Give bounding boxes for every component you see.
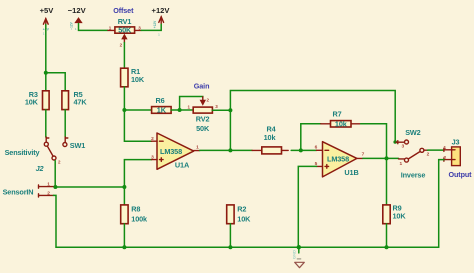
potentiometer RV1 body <box>115 27 135 33</box>
switch SW2 throw contact 1 <box>405 158 409 162</box>
ground symbol <box>292 247 305 268</box>
switch SW1 common contact 2 <box>52 156 56 160</box>
svg-text:R7: R7 <box>332 109 341 118</box>
switch SW2 throw contact 3 <box>405 140 409 144</box>
svg-text:RV2: RV2 <box>196 115 210 124</box>
svg-text:1K: 1K <box>157 106 167 115</box>
wire RV2 pin3 to vertical column <box>212 109 230 111</box>
node wire-end dot SW2 pin3 <box>393 140 397 144</box>
svg-text:GND: GND <box>292 250 297 259</box>
svg-text:J2: J2 <box>36 164 44 173</box>
resistor R8 body <box>121 205 128 224</box>
wire RV1 pin3 to +12V corner <box>141 24 161 30</box>
svg-text:2: 2 <box>151 136 154 142</box>
svg-text:LM358: LM358 <box>327 154 349 163</box>
node junction R1/R6 <box>122 108 126 112</box>
U1B output pin7 stub <box>357 157 363 159</box>
svg-text:50K: 50K <box>118 26 132 35</box>
svg-text:U1A: U1A <box>175 160 190 169</box>
wire junction to R6 <box>124 109 151 111</box>
resistor R6 body <box>152 107 172 114</box>
J2 pin 2 <box>39 194 54 197</box>
svg-text:Gain: Gain <box>194 82 210 91</box>
node junction U1A pin3 / R8 <box>122 185 126 189</box>
svg-text:Offset: Offset <box>113 6 134 15</box>
wire R3 bottom to SW1 <box>45 110 47 137</box>
SW2 lever <box>408 152 420 159</box>
op-amp U1A <box>157 133 194 169</box>
switch SW1 throw contact 3 <box>63 143 67 147</box>
wire R2 bottom to rail <box>229 224 231 248</box>
svg-text:Sensitivity: Sensitivity <box>5 148 41 157</box>
resistor R5 body <box>62 91 69 110</box>
wire ground rail <box>56 246 439 248</box>
wire RV1 wiper down to R1 <box>123 43 125 69</box>
svg-text:RV1: RV1 <box>118 17 132 26</box>
wire column down to R4 line <box>229 110 231 150</box>
svg-text:+5V: +5V <box>40 6 55 15</box>
wire SW1 common down to J2 junction <box>54 161 56 187</box>
R4 pin stubs <box>252 149 288 151</box>
wire U1A output to R4 <box>200 149 252 151</box>
wire J2 pin2 down to ground rail <box>53 195 56 247</box>
wire U1B pin5 left and down to rail <box>298 166 316 247</box>
node junction R9/rail <box>385 245 389 249</box>
svg-text:3: 3 <box>151 154 154 160</box>
svg-text:3: 3 <box>402 143 405 149</box>
svg-text:SW2: SW2 <box>405 128 420 137</box>
svg-text:2: 2 <box>47 190 50 196</box>
U1B pin6 stub <box>317 149 323 151</box>
wire SW2 common to J3 pin1 <box>428 149 444 151</box>
svg-text:50K: 50K <box>196 124 210 133</box>
J2 pin 1 <box>39 185 54 188</box>
wire junction down to R8 <box>123 187 125 205</box>
wire junction to R3 top <box>45 73 47 91</box>
resistor R2 body <box>227 205 234 224</box>
resistor R9 body <box>383 205 390 224</box>
node junction J2 pin1 <box>53 185 57 189</box>
node junction R7 feedback left <box>299 148 303 152</box>
SW2 pin3 stub <box>396 141 404 144</box>
power -12V symbol <box>70 18 83 31</box>
svg-text:J3: J3 <box>452 138 460 147</box>
J3 pin 2 <box>444 158 455 161</box>
svg-text:10K: 10K <box>131 75 145 84</box>
SW1 pin1 stub <box>46 137 49 142</box>
wire J3 pin2 down to rail <box>439 160 444 248</box>
resistor R4 body <box>262 147 282 154</box>
potentiometer RV2 body <box>193 107 212 113</box>
resistor R3 body <box>43 91 50 110</box>
wire junction down to R9 <box>386 158 388 205</box>
svg-text:−12V: −12V <box>68 6 87 15</box>
switch SW2 common contact 2 <box>420 148 424 152</box>
wire R5 bottom to SW1 <box>64 110 66 137</box>
wire R4 to U1B pin6 <box>291 149 316 151</box>
svg-text:+12V: +12V <box>152 6 171 15</box>
wire wiper loop: up, right, down to RV2 wiper <box>180 97 203 111</box>
svg-text:2: 2 <box>427 152 430 158</box>
R7 pin stubs <box>321 123 361 125</box>
power +5V symbol <box>43 19 50 36</box>
svg-text:R2: R2 <box>237 204 246 213</box>
potentiometer RV2 wiper arrow <box>200 97 210 106</box>
wire R7 right down to output junction <box>361 124 387 159</box>
power +12V symbol <box>153 17 163 37</box>
wire J2 pin1 to U1A pin3 column <box>55 186 124 188</box>
svg-text:10k: 10k <box>264 133 277 142</box>
U1B pin5 stub <box>317 165 323 167</box>
wire U1A pin3 from column <box>124 160 151 187</box>
U1A pin3 stub <box>152 159 158 161</box>
node: junction +5V/R3/R5 <box>44 71 48 75</box>
wire R9 bottom to rail <box>386 224 388 248</box>
svg-text:10K: 10K <box>393 211 407 220</box>
node junction U1A out / column <box>228 148 232 152</box>
wire U1B output to SW2 pin1 <box>363 157 399 159</box>
svg-text:10k: 10k <box>335 119 348 128</box>
RV1 pin 3 stub <box>135 29 142 31</box>
svg-text:1: 1 <box>47 182 50 188</box>
resistor R1 body <box>121 68 128 87</box>
node junction R8/rail <box>122 245 126 249</box>
svg-text:100k: 100k <box>131 214 148 223</box>
SW2 pin2 stub <box>424 149 428 151</box>
node junction RV2 wiper loop <box>178 108 182 112</box>
wire top feedback loop <box>230 91 395 142</box>
svg-text:Inverse: Inverse <box>401 170 426 179</box>
svg-text:7: 7 <box>362 151 365 157</box>
wire R8 bottom to rail <box>123 224 125 248</box>
svg-text:SW1: SW1 <box>70 141 85 150</box>
wire R1 bottom to junction <box>123 87 125 110</box>
svg-text:+12V: +12V <box>153 20 157 28</box>
svg-text:SensorIN: SensorIN <box>3 188 34 197</box>
node junction RV2/column <box>228 108 232 112</box>
connector J3 body <box>452 147 461 166</box>
SW1 lever <box>47 146 53 156</box>
U1A pin2 stub <box>152 140 158 142</box>
resistor R7 body <box>331 121 352 127</box>
SW2 pin1 stub <box>399 158 405 160</box>
svg-text:R6: R6 <box>155 96 164 105</box>
svg-text:U1B: U1B <box>344 168 358 177</box>
J3 pin 1 <box>444 148 455 151</box>
U1A output pin1 stub <box>194 150 200 152</box>
wire +5V down to R3 junction <box>45 25 47 73</box>
svg-text:LM358: LM358 <box>160 147 182 156</box>
svg-text:1: 1 <box>400 161 403 167</box>
svg-text:R4: R4 <box>266 125 276 134</box>
svg-text:1: 1 <box>196 145 199 151</box>
svg-text:1: 1 <box>443 145 446 151</box>
SW1 pin3 stub <box>65 137 68 142</box>
svg-text:10K: 10K <box>25 98 39 107</box>
RV1 wiper arrow pin 2 <box>120 34 128 48</box>
wire -12V to RV1 pin1 <box>79 24 108 31</box>
wire branch to R5 <box>46 73 65 91</box>
wire feedback up to R7 <box>301 124 321 151</box>
wire R6 to RV2 pin1 <box>171 109 193 111</box>
RV1 pin 1 stub <box>108 29 115 31</box>
svg-text:10K: 10K <box>237 214 251 223</box>
svg-text:Output: Output <box>449 170 473 179</box>
svg-text:47K: 47K <box>74 98 88 107</box>
wire junction down to U1A pin2 <box>124 110 151 141</box>
svg-text:6: 6 <box>315 145 318 151</box>
svg-text:−12V: −12V <box>70 21 74 29</box>
node junction R2/rail <box>228 245 232 249</box>
switch SW1 throw contact 1 <box>44 142 48 146</box>
svg-text:R8: R8 <box>131 204 140 213</box>
op-amp U1B <box>323 142 359 177</box>
node junction GND/rail <box>297 245 301 249</box>
node junction output/R7/R9 <box>385 156 389 160</box>
